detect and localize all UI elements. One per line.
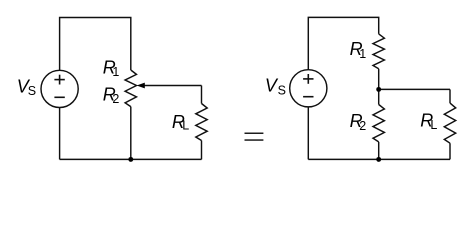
svg-text:L: L bbox=[182, 118, 189, 132]
svg-text:S: S bbox=[28, 84, 36, 98]
svg-text:1: 1 bbox=[112, 65, 119, 79]
svg-text:L: L bbox=[430, 118, 437, 132]
svg-text:2: 2 bbox=[112, 92, 119, 106]
svg-text:S: S bbox=[278, 84, 286, 98]
svg-text:1: 1 bbox=[359, 47, 366, 61]
svg-text:2: 2 bbox=[359, 119, 366, 133]
